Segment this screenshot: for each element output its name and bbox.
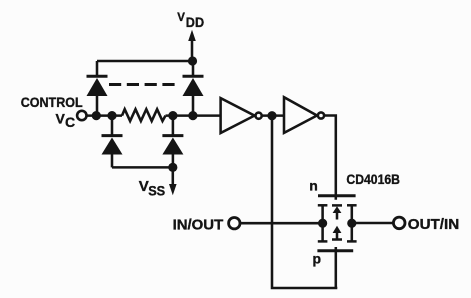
diode D1 (left, to VDD) — [87, 76, 108, 115]
wire control line right — [166, 114, 222, 117]
n gate bar — [318, 194, 356, 197]
svg-text:SS: SS — [148, 182, 165, 198]
VSS label — [139, 178, 165, 198]
resistor R1 — [122, 109, 166, 121]
node control-D1 — [92, 111, 101, 120]
node control-D2 — [188, 111, 197, 120]
terminal IN/OUT — [229, 218, 240, 229]
svg-text:OUT/IN: OUT/IN — [408, 217, 459, 233]
op-amp U2 (inverter 2) — [284, 97, 324, 133]
wire inverter2 out to n gate — [324, 116, 336, 200]
svg-text:C: C — [65, 114, 75, 130]
terminal OUT/IN — [393, 217, 405, 229]
diode D2 (right, to VDD) — [183, 76, 204, 115]
wire right rail drop — [192, 61, 195, 76]
wire switch to OUT/IN — [354, 222, 393, 225]
wire control line left — [87, 114, 123, 117]
node VSS junction — [168, 163, 177, 172]
wire IN/OUT to switch — [240, 222, 320, 225]
op-amp U1 (inverter 1) — [221, 98, 262, 133]
VDD label — [177, 12, 204, 30]
wire bottom rail — [112, 166, 173, 169]
svg-text:IN/OUT: IN/OUT — [173, 218, 224, 234]
wire p gate to bottom rail — [335, 247, 338, 288]
diode D4 (right, to VSS) — [162, 116, 183, 168]
wire bottom return — [272, 116, 337, 288]
svg-text:CONTROL: CONTROL — [21, 94, 83, 110]
node control-D3 — [107, 111, 116, 120]
terminal VC — [77, 111, 86, 120]
transistor left bar — [318, 205, 328, 241]
CONTROL label — [21, 94, 83, 130]
svg-text:n: n — [309, 177, 318, 193]
wire left rail drop — [96, 61, 99, 76]
svg-text:DD: DD — [186, 15, 205, 30]
VSS arrow — [169, 167, 177, 195]
VDD arrow — [188, 30, 196, 61]
node control-D4 — [168, 111, 177, 120]
node VDD junction — [188, 56, 197, 65]
wire between inverters — [262, 114, 284, 117]
svg-text:p: p — [313, 250, 322, 266]
node inverter1 out — [267, 111, 276, 120]
diode D3 (left, to VSS) — [102, 116, 123, 168]
dashed substrate line — [109, 83, 179, 86]
substrate arrows — [332, 205, 342, 239]
svg-text:V: V — [177, 12, 185, 24]
wire top rail — [97, 60, 193, 63]
svg-text:CD4016B: CD4016B — [346, 171, 400, 187]
transistor right bar — [347, 205, 357, 241]
svg-text:V: V — [56, 111, 66, 127]
p gate bar — [317, 249, 353, 252]
